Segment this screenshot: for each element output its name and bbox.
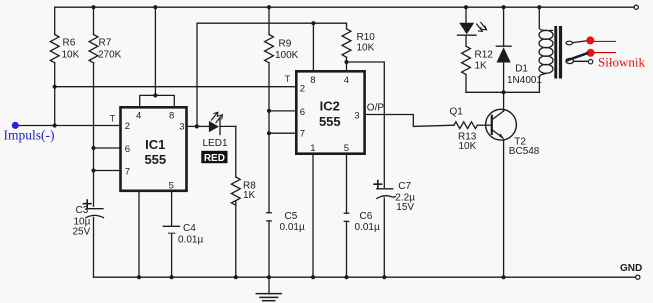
node pin3 junction <box>195 124 199 128</box>
svg-text:D1: D1 <box>515 64 528 75</box>
node contact red dot 1 <box>586 36 594 44</box>
node R6 bottom junction <box>53 85 57 89</box>
ground symbol <box>256 277 281 301</box>
relay pivot <box>566 58 574 63</box>
svg-text:3: 3 <box>354 110 359 121</box>
wire red lead 2 <box>595 52 616 54</box>
svg-text:5: 5 <box>169 180 174 191</box>
svg-text:Impuls(-): Impuls(-) <box>4 128 55 143</box>
svg-text:R12: R12 <box>475 50 494 61</box>
LED1 RED badge <box>201 151 227 164</box>
capacitor C3 <box>73 200 104 277</box>
svg-text:R7: R7 <box>99 38 112 49</box>
transistor T2 BC548 <box>486 92 540 277</box>
svg-text:C7: C7 <box>398 181 411 192</box>
node pin6 junction <box>91 146 95 150</box>
terminal GND (open circle) <box>636 275 640 279</box>
svg-text:2: 2 <box>125 121 130 132</box>
svg-text:T: T <box>110 114 116 125</box>
node bracket top junction <box>153 5 157 9</box>
svg-text:8: 8 <box>310 75 315 86</box>
svg-text:555: 555 <box>319 114 341 129</box>
svg-text:IC1: IC1 <box>145 137 165 152</box>
svg-text:2: 2 <box>300 84 305 95</box>
capacitor C7 <box>374 181 415 278</box>
svg-text:R6: R6 <box>63 38 76 49</box>
svg-text:1K: 1K <box>475 61 488 72</box>
svg-text:10K: 10K <box>62 50 80 61</box>
resistor R12 <box>462 46 494 92</box>
capacitor C4 <box>163 191 203 277</box>
node R7 top junction <box>91 5 95 9</box>
node bracket mid junction <box>153 93 157 97</box>
wire R12 branch to collector node <box>466 91 504 93</box>
svg-text:4: 4 <box>344 75 349 86</box>
svg-text:100K: 100K <box>275 50 299 61</box>
svg-text:C3: C3 <box>76 205 89 216</box>
svg-text:15V: 15V <box>396 202 414 213</box>
svg-text:Q1: Q1 <box>450 106 464 117</box>
node collector junction <box>502 90 506 94</box>
wire left rail to IC2 pin2 <box>55 86 297 88</box>
svg-text:1: 1 <box>310 143 315 154</box>
diode D1 1N4001 <box>496 7 542 92</box>
relay core bars <box>554 26 562 79</box>
op-amp IC1 555 (IC box) <box>121 107 187 191</box>
svg-text:IC2: IC2 <box>320 98 340 113</box>
node IC2 pin8 feed junction <box>311 21 315 25</box>
svg-text:R9: R9 <box>279 39 292 50</box>
wire IC2 pin1 to ground rail <box>312 154 314 278</box>
resistor R8 <box>231 126 256 277</box>
svg-text:R10: R10 <box>357 32 376 43</box>
resistor R13 <box>450 106 491 152</box>
node contact red dot 2 <box>587 49 595 57</box>
svg-text:5: 5 <box>344 143 349 154</box>
svg-text:0.01µ: 0.01µ <box>355 222 380 233</box>
svg-text:25V: 25V <box>73 227 91 238</box>
wire top +V rail <box>55 6 635 8</box>
svg-text:T: T <box>285 74 291 85</box>
relay contact top <box>566 41 586 45</box>
svg-text:555: 555 <box>144 152 166 167</box>
node pin7 junction <box>91 168 95 172</box>
node R9 top junction <box>267 5 271 9</box>
svg-text:C5: C5 <box>285 211 298 222</box>
node LED branch top junction <box>464 5 468 9</box>
node IC2 pin7 junction <box>267 131 271 135</box>
svg-text:8: 8 <box>169 111 174 122</box>
resistor R9 <box>265 7 299 213</box>
svg-text:3: 3 <box>179 122 184 133</box>
wire pin3 riser to rail y23 <box>197 23 347 126</box>
svg-text:1K: 1K <box>243 190 256 201</box>
wire IC2 pin3 output O/P <box>365 115 454 127</box>
relay switch arm <box>567 53 587 60</box>
wire IC1 pin1 to ground rail <box>138 191 140 277</box>
wire pivot to NC contact <box>574 60 589 62</box>
svg-text:O/P: O/P <box>367 102 385 113</box>
wire IC1 pin6 stub <box>94 147 121 149</box>
svg-text:10K: 10K <box>459 141 477 152</box>
svg-text:BC548: BC548 <box>509 146 540 157</box>
wire IC1 pin3 output <box>187 125 197 127</box>
wire IC2 pin8 stub <box>312 23 314 71</box>
node NC contact circle <box>588 60 592 64</box>
terminal +V (open circle) <box>634 5 638 9</box>
resistor R6 <box>50 7 79 125</box>
svg-text:7: 7 <box>300 129 305 140</box>
node R10 bottom junction <box>344 60 348 64</box>
node D1 top junction <box>502 5 506 9</box>
node Impuls junction <box>53 123 57 127</box>
node bottom rail junctions <box>137 275 506 279</box>
wire R10 bottom to C7 line <box>347 62 385 187</box>
wire IC2 pin7 stub <box>269 132 296 134</box>
svg-text:6: 6 <box>300 107 305 118</box>
svg-text:0.01µ: 0.01µ <box>280 222 305 233</box>
wire IC1 pin7 stub <box>94 170 121 172</box>
svg-text:LED1: LED1 <box>203 138 228 149</box>
wire IC2 pin6 stub <box>269 110 296 112</box>
svg-text:0.01µ: 0.01µ <box>178 234 203 245</box>
svg-text:C6: C6 <box>360 211 373 222</box>
capacitor C6 <box>344 154 380 278</box>
wire bottom ground rail <box>94 276 636 278</box>
op-amp IC2 555 (IC box) <box>296 71 364 153</box>
svg-text:7: 7 <box>125 166 130 177</box>
wire red lead 1 <box>594 40 615 42</box>
svg-text:C4: C4 <box>183 223 196 234</box>
svg-text:GND: GND <box>620 263 642 274</box>
svg-text:Siłownik: Siłownik <box>598 55 645 70</box>
svg-text:RED: RED <box>204 153 225 164</box>
relay coil <box>504 7 553 92</box>
svg-text:6: 6 <box>125 144 130 155</box>
capacitor C5 <box>267 211 305 277</box>
node IC2 pin6 junction <box>267 109 271 113</box>
node Impuls terminal (blue dot) <box>12 122 19 129</box>
node relay coil top junction <box>537 5 541 9</box>
svg-text:4: 4 <box>136 111 141 122</box>
wire Impuls input <box>15 125 120 127</box>
wire IC1 pins 4-8 bracket <box>140 7 175 107</box>
svg-text:270K: 270K <box>98 50 122 61</box>
resistor R10 <box>342 23 375 71</box>
LED LED1 <box>197 112 236 149</box>
resistor R7 <box>89 7 122 206</box>
svg-text:10K: 10K <box>357 43 375 54</box>
svg-text:1N4001: 1N4001 <box>507 75 542 86</box>
LED top (indicator) <box>458 7 487 46</box>
